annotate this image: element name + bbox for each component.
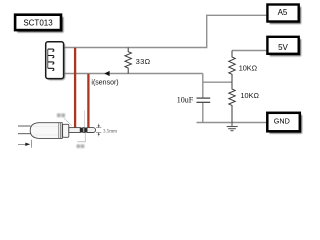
svg-text:33Ω: 33Ω xyxy=(136,57,151,66)
svg-text:GND: GND xyxy=(274,117,290,126)
svg-text:10KΩ: 10KΩ xyxy=(239,63,258,72)
svg-text:i(sensor): i(sensor) xyxy=(91,79,118,86)
svg-text:3.5mm: 3.5mm xyxy=(103,130,117,135)
svg-text:5V: 5V xyxy=(278,43,288,52)
svg-text:SCT013: SCT013 xyxy=(23,18,53,27)
svg-text:10KΩ: 10KΩ xyxy=(241,91,260,100)
svg-text:10uF: 10uF xyxy=(177,95,194,104)
svg-text:A5: A5 xyxy=(278,8,288,17)
